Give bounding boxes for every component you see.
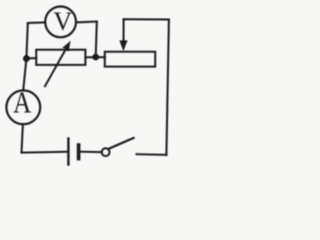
rheostat R1 body	[36, 50, 85, 65]
resistor R2 body	[105, 52, 155, 67]
switch S1 pivot circle	[102, 148, 110, 156]
battery cell short plate	[77, 145, 81, 159]
battery cell long plate	[67, 139, 69, 165]
wire right drop from voltmeter to node B	[96, 22, 97, 57]
wire switch right stub to bottom-right corner	[137, 153, 167, 156]
switch S1 blade	[109, 138, 134, 149]
wire left rail upper	[26, 23, 27, 59]
wire top-left horizontal to voltmeter	[28, 21, 45, 24]
rheostat R1 arrowhead	[62, 41, 70, 52]
wire right rail	[166, 20, 169, 155]
rheostat R1 arrow shaft	[45, 50, 66, 87]
node A junction dot	[23, 55, 30, 62]
wire top-right horizontal	[124, 18, 169, 20]
wire node A down to ammeter	[23, 59, 26, 91]
wire voltmeter right horizontal	[76, 21, 97, 24]
wire node A to rheostat R1 left	[26, 57, 36, 59]
wire ammeter bottom down	[22, 124, 23, 153]
svg-text:A: A	[13, 86, 32, 120]
slider arrowhead on R2	[119, 40, 127, 51]
wire rheostat R1 right to node B	[85, 56, 95, 58]
svg-text:V: V	[53, 7, 72, 36]
node B junction dot	[92, 54, 99, 61]
ammeter A1 circle	[6, 90, 40, 124]
wire battery to switch	[80, 151, 102, 153]
wire slider drop to R2	[123, 19, 125, 41]
wire bottom-left to battery	[22, 151, 68, 154]
wire node B to resistor R2 left	[96, 56, 105, 58]
voltmeter V1 circle	[45, 7, 76, 38]
